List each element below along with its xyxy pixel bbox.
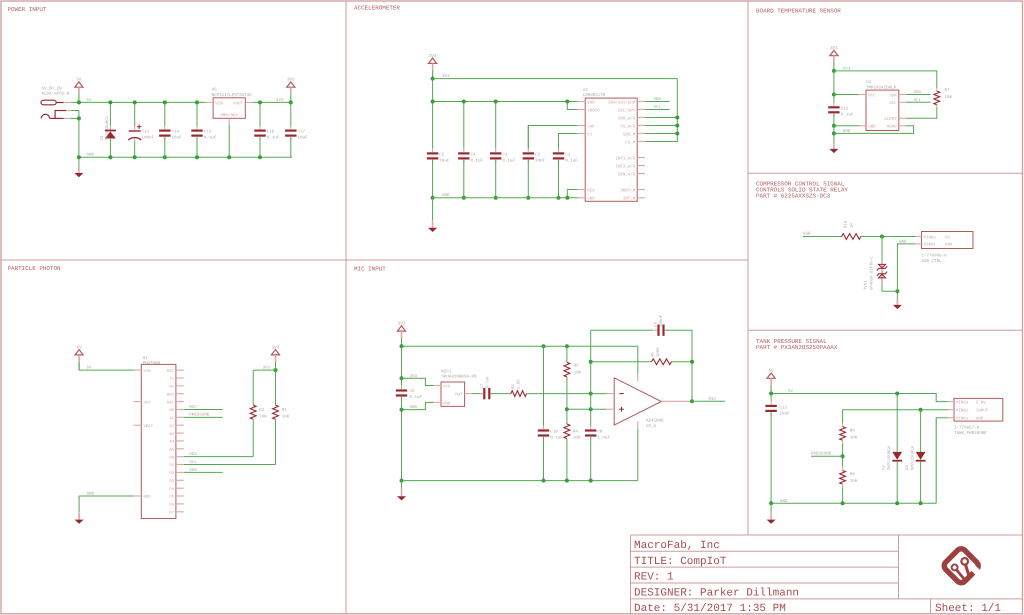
svg-text:GND: GND	[87, 491, 95, 496]
wire 5V to VIN	[79, 362, 133, 370]
svg-text:3V3: 3V3	[410, 374, 418, 379]
wire R1 bottom to SCL	[275, 419, 277, 464]
svg-text:SCL/SPC: SCL/SPC	[618, 108, 636, 113]
junction	[289, 100, 293, 104]
wire C2 to GND rail	[527, 160, 529, 198]
svg-text:GND/ADJ: GND/ADJ	[220, 112, 238, 118]
resistor R4 10K	[564, 424, 570, 439]
wire 5V to D2 anode	[896, 394, 898, 452]
wire R9 to GND rail	[842, 488, 844, 504]
junction	[832, 69, 836, 73]
junction	[462, 196, 466, 200]
wire INPUT to D3 anode	[920, 410, 922, 452]
svg-text:U1: U1	[143, 356, 149, 361]
svg-text:Sheet: 1/1: Sheet: 1/1	[935, 603, 1001, 615]
svg-text:C9: C9	[653, 322, 658, 327]
junction	[919, 501, 923, 505]
svg-text:1.5K: 1.5K	[516, 379, 521, 389]
svg-text:3V3: 3V3	[843, 66, 851, 71]
svg-text:A5: A5	[169, 448, 174, 453]
svg-text:GND: GND	[587, 197, 595, 202]
svg-text:MIC1: MIC1	[441, 370, 452, 375]
junction	[462, 100, 466, 104]
capacitor C10 0.1uF	[538, 426, 549, 440]
wire SSR net to R10	[803, 236, 842, 238]
svg-text:GND: GND	[144, 495, 152, 500]
svg-text:5V: 5V	[769, 369, 775, 374]
svg-text:A3: A3	[169, 432, 174, 437]
svg-text:3V3: 3V3	[830, 46, 838, 51]
svg-text:5V: 5V	[788, 389, 794, 394]
wire C2 to CAP pin	[528, 126, 577, 149]
svg-text:R5: R5	[574, 364, 580, 369]
wire U5 GND to rail	[228, 125, 230, 157]
svg-text:R1: R1	[282, 408, 288, 413]
svg-text:DAC: DAC	[167, 400, 175, 405]
U4 pin stubs	[859, 94, 867, 96]
svg-text:R3: R3	[511, 384, 516, 389]
junction GND node	[895, 289, 899, 293]
wire R4 to GND rail	[566, 439, 568, 481]
op-amp U3_A AZ4580E	[606, 374, 692, 429]
wire to C4 top	[463, 102, 465, 149]
junction	[494, 100, 498, 104]
junction bias node at + input	[565, 407, 569, 411]
svg-text:GND: GND	[780, 499, 788, 504]
wire to R6 left	[591, 361, 652, 363]
wire C16 to GND rail	[259, 137, 261, 157]
junction pullup rail	[274, 368, 278, 372]
wire net SCL (D1)	[184, 464, 276, 466]
svg-text:C16: C16	[267, 130, 275, 135]
wire net MIC (A0)	[184, 408, 223, 410]
junction	[163, 155, 167, 159]
svg-text:PRESSURE: PRESSURE	[189, 413, 210, 418]
wire RES pin to GND rail	[567, 190, 577, 198]
wire C1 to GND rail	[558, 160, 560, 198]
svg-text:SSR: SSR	[803, 232, 811, 237]
resistor R3 1.5K	[511, 391, 527, 397]
capacitor C13 100uF (polarized)	[128, 125, 141, 143]
wire R2 bottom to SDA	[252, 419, 254, 456]
wire GND drop (tank connector)	[935, 418, 937, 504]
capacitor C17 10uF	[285, 126, 296, 140]
junction	[133, 100, 137, 104]
svg-text:100uF: 100uF	[142, 136, 155, 141]
wire ADD0 strap to GND	[834, 126, 914, 134]
junction R5 top	[565, 344, 569, 348]
svg-text:PIN01: PIN01	[956, 417, 969, 422]
wire to ground symbol	[401, 481, 403, 489]
svg-text:U3_A: U3_A	[646, 424, 657, 429]
junction	[675, 124, 679, 128]
wire 3V3 rail to R5	[566, 346, 568, 362]
section divider horizontal y=330 (right column)	[748, 329, 1023, 331]
svg-text:PIN02: PIN02	[924, 235, 937, 240]
svg-text:KLDX-0202-B: KLDX-0202-B	[42, 92, 70, 97]
junction	[133, 155, 137, 159]
wire net SDA stub	[645, 101, 669, 103]
svg-text:10K: 10K	[573, 436, 581, 441]
wire 3V3 to R1 top	[275, 370, 277, 405]
wire C15 to GND rail	[196, 137, 198, 157]
resistor R2 10K (SDA pullup)	[250, 405, 256, 419]
svg-text:C1: C1	[565, 153, 571, 158]
supply 3V3 arrow (accelerometer)	[429, 54, 437, 79]
supply 3V3 arrow (photon pullups)	[271, 345, 279, 370]
svg-text:NCP1117LPST33T3G: NCP1117LPST33T3G	[212, 93, 253, 98]
svg-text:GND: GND	[976, 417, 984, 422]
svg-text:0.1uF: 0.1uF	[502, 159, 515, 164]
wire to C9 left	[591, 329, 654, 331]
wire 5V rail to PIN03	[771, 394, 948, 402]
wire 5V rail to C13	[134, 102, 136, 126]
ground (power input)	[74, 166, 83, 178]
svg-text:0.1uF: 0.1uF	[550, 436, 563, 441]
svg-text:WKP: WKP	[167, 392, 175, 397]
IC U4 TMP102AIDRLR	[866, 90, 899, 130]
junction D3 tap	[919, 408, 923, 412]
wire SDO_M to 3V3 drop	[645, 133, 677, 135]
IC U2 LSM9DS1TR	[585, 98, 637, 201]
svg-text:10K: 10K	[259, 414, 267, 419]
capacitor C11 0.1uF	[828, 103, 839, 117]
svg-text:10uF: 10uF	[298, 136, 309, 141]
svg-text:CS_M: CS_M	[625, 140, 635, 145]
wire C1 to C1 pin	[559, 134, 578, 149]
U2 left pin stubs	[578, 101, 586, 103]
wire bias node to op-amp + input	[567, 408, 606, 410]
wire 3V3 rail (U5 VOUT to C17)	[253, 101, 292, 103]
svg-text:C3: C3	[502, 153, 508, 158]
svg-text:D4: D4	[169, 487, 174, 492]
capacitor C4 0.1uF	[458, 149, 469, 163]
svg-text:ALERT: ALERT	[884, 117, 897, 122]
svg-text:PIN01: PIN01	[924, 243, 937, 248]
section divider vertical x=346	[345, 1, 347, 614]
IC U1 PHOTONH (Particle Photon)	[141, 364, 176, 518]
junction PRESSURE net	[841, 454, 845, 458]
svg-text:D2: D2	[169, 471, 174, 476]
svg-text:PIN03: PIN03	[956, 400, 969, 405]
svg-text:R4: R4	[573, 430, 579, 435]
svg-text:C6: C6	[410, 389, 416, 394]
svg-text:R8: R8	[850, 428, 856, 433]
svg-text:3V3: 3V3	[429, 54, 437, 59]
svg-text:20K: 20K	[850, 479, 858, 484]
wire 3V3 rail to right drop	[433, 78, 678, 80]
wire R3 to op-amp inverting input	[527, 393, 607, 395]
wire C4 to GND rail	[463, 160, 465, 198]
resistor R6 100K	[652, 359, 672, 365]
svg-text:10uF: 10uF	[780, 411, 791, 416]
supply 3V3 arrow (power input)	[287, 78, 295, 103]
svg-text:SDA: SDA	[914, 90, 922, 95]
junction U4 GND	[832, 124, 836, 128]
svg-text:D6: D6	[169, 503, 174, 508]
svg-text:PRESSURE: PRESSURE	[811, 452, 832, 457]
wire C11 to GND	[833, 114, 835, 142]
ground (compressor control)	[893, 298, 902, 310]
ground (photon)	[75, 512, 84, 524]
wire VDD rail	[433, 101, 578, 103]
section divider horizontal y=173 (right column)	[748, 172, 1023, 174]
wire C17 to GND rail	[290, 137, 292, 157]
svg-text:GND: GND	[868, 125, 876, 130]
junction GND rail left corner	[77, 155, 81, 159]
svg-text:SSR_CTRL: SSR_CTRL	[922, 259, 943, 264]
svg-text:U4: U4	[866, 80, 872, 85]
U1 left pin stubs	[134, 369, 142, 371]
svg-text:3V3: 3V3	[276, 98, 284, 103]
svg-text:VBAT: VBAT	[144, 424, 154, 429]
U2 right pin stubs	[637, 101, 645, 103]
wire 3V3 rail to R7 top	[834, 71, 937, 88]
svg-text:PART # PX3AN2BS250PAAAX: PART # PX3AN2BS250PAAAX	[756, 344, 838, 351]
svg-text:10K: 10K	[574, 371, 582, 376]
junction	[494, 196, 498, 200]
wire 3V3 to MIC1 VCC	[402, 378, 434, 385]
svg-text:R9: R9	[850, 472, 856, 477]
svg-text:GND: GND	[899, 239, 907, 244]
svg-text:Rx: Rx	[169, 385, 174, 390]
wire U1 GND to ground	[79, 496, 133, 512]
svg-text:VDD: VDD	[587, 100, 595, 105]
svg-text:DEN_A/G: DEN_A/G	[618, 172, 636, 177]
svg-text:C8: C8	[597, 430, 603, 435]
svg-text:GND: GND	[945, 243, 953, 248]
svg-text:5V: 5V	[945, 235, 950, 240]
wire MIC1 OUT to C7	[472, 393, 483, 395]
svg-text:D7: D7	[169, 510, 174, 515]
title block frame	[631, 535, 1023, 614]
svg-text:0.1uF: 0.1uF	[410, 395, 423, 400]
connector TANK_PRESSURE 1-770967-0	[948, 398, 1003, 421]
ground (mic input)	[397, 489, 406, 501]
svg-text:DESIGNER: Parker Dillmann: DESIGNER: Parker Dillmann	[634, 588, 799, 600]
supply 5V arrow (photon)	[75, 345, 83, 370]
svg-text:INT_M: INT_M	[623, 197, 636, 202]
svg-text:U2: U2	[583, 88, 589, 93]
svg-text:10K: 10K	[850, 435, 858, 440]
svg-text:PART # 6225AXXSZS-DC3: PART # 6225AXXSZS-DC3	[756, 192, 831, 199]
capacitor C14 10uF	[159, 126, 170, 140]
svg-text:VDDIO: VDDIO	[587, 108, 600, 113]
junction	[895, 501, 899, 505]
svg-text:OUT: OUT	[455, 393, 463, 398]
wire GND rail to ground symbol	[78, 157, 80, 165]
junction R6 left	[589, 360, 593, 364]
svg-text:D1: D1	[169, 463, 174, 468]
wire D2 cathode to GND rail	[896, 462, 898, 504]
svg-text:0.1uF: 0.1uF	[471, 159, 484, 164]
wire C10 to GND rail	[543, 437, 545, 481]
svg-text:MIC INPUT: MIC INPUT	[354, 265, 386, 272]
junction GND rail left	[400, 479, 404, 483]
svg-text:SM2L15UBCA: SM2L15UBCA	[105, 115, 110, 140]
svg-text:INPUT: INPUT	[976, 409, 989, 414]
svg-text:0.1uF: 0.1uF	[841, 113, 854, 118]
wire GND bottom rail (mic)	[402, 480, 638, 482]
svg-text:SDA/SDI/SDO: SDA/SDI/SDO	[608, 100, 636, 105]
junction VDDIO branch	[565, 100, 569, 104]
svg-text:C12: C12	[780, 405, 788, 410]
junction	[258, 155, 262, 159]
svg-text:CS_A/G: CS_A/G	[620, 124, 635, 129]
wire C12 to GND rail	[770, 413, 772, 504]
svg-text:BOARD TEMPERATURE SENSOR: BOARD TEMPERATURE SENSOR	[756, 7, 841, 14]
wire jack sleeve pin	[71, 117, 79, 119]
svg-text:R7: R7	[945, 88, 951, 93]
junction feedback to output	[690, 360, 694, 364]
wire R10 to PIN02	[861, 236, 916, 238]
wire GND to PIN01	[897, 244, 915, 291]
svg-text:REV: 1: REV: 1	[634, 572, 674, 584]
svg-text:R6: R6	[650, 352, 655, 357]
wire to ground symbol	[896, 291, 898, 297]
wire feedback vertical (C9/R6 left)	[590, 330, 592, 426]
svg-text:SDA: SDA	[889, 93, 897, 98]
microphone MIC1 SPU0410HR5H-PB	[434, 382, 473, 406]
junction output node	[690, 399, 694, 403]
diode D3 SM2L15UBCA	[916, 452, 926, 462]
svg-text:5V_DC_IN: 5V_DC_IN	[42, 87, 63, 92]
svg-text:C14: C14	[172, 130, 180, 135]
wire C9 right to output	[666, 330, 693, 401]
wire VDDIO branch	[567, 102, 577, 110]
wire C14 to GND rail	[164, 137, 166, 157]
junction	[542, 479, 546, 483]
ground (accelerometer)	[428, 220, 437, 232]
resistor R8 10K	[840, 427, 846, 441]
svg-text:10K: 10K	[945, 95, 953, 100]
wire D3 cathode to GND rail	[920, 462, 922, 504]
wire jack middle contact	[71, 110, 79, 112]
junction	[841, 501, 845, 505]
wire 5V top rail (jack to U5 VIN)	[71, 101, 206, 103]
svg-text:VCC: VCC	[443, 385, 451, 390]
junction	[675, 132, 679, 136]
MacroFab logo	[942, 547, 985, 590]
junction C10 top	[542, 344, 546, 348]
capacitor C5 10uF	[427, 149, 438, 163]
wire 3V3 rail to C10	[543, 346, 545, 426]
svg-text:VIN: VIN	[215, 102, 223, 107]
svg-text:5V: 5V	[76, 78, 82, 83]
svg-text:SDO_A/G: SDO_A/G	[618, 116, 636, 121]
svg-text:1-770966-0: 1-770966-0	[922, 253, 948, 258]
junction ADD0 return	[832, 131, 836, 135]
wire to ground symbol	[770, 503, 772, 512]
svg-text:D3: D3	[905, 465, 910, 470]
wire left vertical to C6	[401, 346, 403, 386]
svg-text:GND: GND	[443, 401, 451, 406]
capacitor C9 100nF	[654, 325, 668, 336]
junction	[258, 100, 262, 104]
svg-text:C13: C13	[142, 130, 150, 135]
capacitor C16 0.1uF	[254, 126, 265, 140]
capacitor C7 4.7uF	[480, 388, 494, 399]
svg-text:C7: C7	[480, 383, 485, 388]
svg-text:D2: D2	[881, 465, 886, 470]
junction	[400, 344, 404, 348]
capacitor C8 1.0uF	[585, 426, 596, 440]
capacitor C3 0.1uF	[490, 149, 501, 163]
junction	[195, 100, 199, 104]
svg-text:GND: GND	[87, 153, 95, 158]
junction sleeve pin	[77, 116, 81, 120]
svg-text:SPU0410HR5H-PB: SPU0410HR5H-PB	[441, 375, 477, 380]
wire R6 right to output	[672, 361, 693, 363]
wire 3V3 drop to CS_M	[645, 79, 677, 142]
junction	[675, 116, 679, 120]
junction	[769, 392, 773, 396]
svg-text:SM2L15UBCA: SM2L15UBCA	[887, 445, 892, 470]
U1 right pin stubs	[176, 369, 184, 371]
svg-text:INT1_A/G: INT1_A/G	[616, 156, 636, 161]
wire CS_A/G to 3V3 drop	[645, 125, 677, 127]
resistor R10 1R	[842, 234, 861, 240]
section divider vertical x=748	[747, 1, 749, 535]
wire 3V3 to U4 VCC	[834, 94, 859, 96]
junction	[565, 479, 569, 483]
svg-text:C17: C17	[298, 130, 306, 135]
junction	[431, 196, 435, 200]
svg-text:D3: D3	[169, 479, 174, 484]
wire jack sleeve drop to GND rail	[78, 111, 80, 158]
connector SSR_CTRL 1-770966-0	[916, 232, 974, 249]
svg-text:AZ4580E: AZ4580E	[646, 419, 664, 424]
svg-text:CAP: CAP	[587, 124, 595, 129]
svg-text:C10: C10	[550, 430, 558, 435]
svg-text:U5: U5	[212, 88, 218, 93]
svg-text:C4: C4	[471, 153, 477, 158]
svg-text:ACCELEROMETER: ACCELEROMETER	[354, 5, 400, 12]
supply 5V arrow (tank pressure)	[767, 369, 775, 394]
svg-text:5V: 5V	[87, 366, 93, 371]
regulator U5 NCP1117LPST33T3G	[206, 98, 253, 125]
svg-text:3V3: 3V3	[398, 322, 406, 327]
wire C6 to GND rail	[401, 397, 403, 481]
wire 3V3 rail to op-amp V+	[637, 346, 639, 374]
wire SDO_A/G to 3V3 drop	[645, 117, 677, 119]
svg-text:SM2L15UBCA: SM2L15UBCA	[910, 445, 915, 470]
svg-text:C11: C11	[841, 107, 849, 112]
svg-text:TVS1: TVS1	[864, 280, 869, 290]
svg-text:10K: 10K	[282, 414, 290, 419]
svg-text:Date: 5/31/2017 1:35 PM: Date: 5/31/2017 1:35 PM	[634, 603, 786, 615]
junction	[557, 196, 561, 200]
svg-text:4.7uF: 4.7uF	[486, 376, 491, 389]
svg-text:RES: RES	[587, 188, 595, 193]
ground (tank pressure)	[767, 512, 776, 524]
svg-text:A2: A2	[169, 424, 174, 429]
svg-text:A0: A0	[169, 408, 174, 413]
wire 5V rail to C15	[196, 102, 198, 126]
title block text	[634, 540, 1001, 615]
wire GND rail (accelerometer)	[433, 197, 578, 199]
svg-text:RST: RST	[167, 369, 175, 374]
svg-text:D0: D0	[169, 455, 174, 460]
connector 5V_DC_IN barrel jack	[41, 100, 71, 119]
svg-text:A4: A4	[169, 440, 174, 445]
supply 5V arrow (power input)	[75, 78, 83, 103]
wire C13 to GND rail	[134, 142, 136, 158]
junction 5V rail / supply stem	[77, 100, 81, 104]
TVS diode TVS1 SP4020-01FTG-C	[877, 260, 887, 284]
svg-text:POWER INPUT: POWER INPUT	[8, 6, 47, 13]
svg-text:ADD0: ADD0	[887, 125, 897, 130]
